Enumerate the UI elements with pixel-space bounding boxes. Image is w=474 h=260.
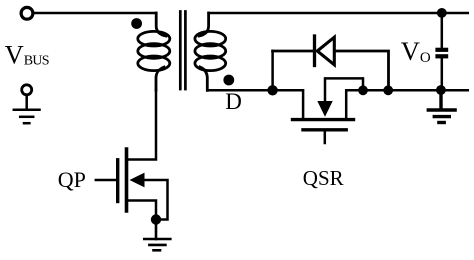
QSR body wire xyxy=(325,78,363,103)
svg-text:D: D xyxy=(225,89,242,114)
diode anode wire (right) xyxy=(336,51,389,90)
wire: junction to capacitor xyxy=(441,13,444,48)
wire: D node up to diode xyxy=(271,51,274,90)
QSR channel bar xyxy=(293,118,354,121)
transformer core xyxy=(180,12,185,90)
QSR gate lead stub xyxy=(324,132,327,144)
node: junction dot QSR drain/body xyxy=(358,85,368,95)
transistor QP xyxy=(96,149,168,220)
diode cathode bar xyxy=(313,36,316,66)
QP source lead xyxy=(129,201,157,220)
node: secondary polarity dot xyxy=(223,75,234,86)
input terminal (open circle) xyxy=(21,7,33,19)
wire: secondary top to output xyxy=(209,12,468,15)
QSR drain lead xyxy=(346,90,468,118)
transistor QSR xyxy=(293,78,468,143)
wire: capacitor to bottom rail xyxy=(441,58,444,90)
ground (QP source) xyxy=(144,224,170,250)
svg-text:VBUS: VBUS xyxy=(5,39,49,69)
wire: secondary bottom rail to QSR source xyxy=(207,90,303,118)
ground terminal circle (left) xyxy=(22,85,32,95)
node: primary polarity dot xyxy=(131,18,142,29)
transformer T1 secondary winding xyxy=(195,13,226,90)
QSR gate bar xyxy=(303,128,346,131)
capacitor C_O xyxy=(435,48,448,59)
QP gate bar xyxy=(116,160,119,202)
node: junction dot diode anode xyxy=(383,85,393,95)
diode cathode wire (left) xyxy=(273,50,313,53)
wire: primary bottom to QP drain xyxy=(129,90,157,160)
svg-text:VO: VO xyxy=(401,36,431,66)
ground (left, below V_BUS) xyxy=(14,95,40,123)
QP gate lead xyxy=(96,179,116,182)
QP channel bar xyxy=(125,149,129,211)
svg-text:QSR: QSR xyxy=(303,166,344,190)
node D junction dot xyxy=(267,85,277,95)
diode triangle xyxy=(317,37,334,65)
node: QP source junction dot xyxy=(151,214,161,224)
transformer T1 primary winding xyxy=(138,13,170,90)
svg-text:QP: QP xyxy=(58,167,86,192)
node: junction dot at output bottom xyxy=(436,85,446,95)
QP body arrowhead xyxy=(130,173,145,188)
node: junction dot at output top xyxy=(437,8,447,18)
QSR body arrowhead xyxy=(317,101,332,117)
QP body arrow wire xyxy=(143,180,168,220)
ground (output, bold) xyxy=(428,90,455,123)
diode D1 xyxy=(273,36,389,90)
wire: input terminal to primary top xyxy=(33,12,156,15)
